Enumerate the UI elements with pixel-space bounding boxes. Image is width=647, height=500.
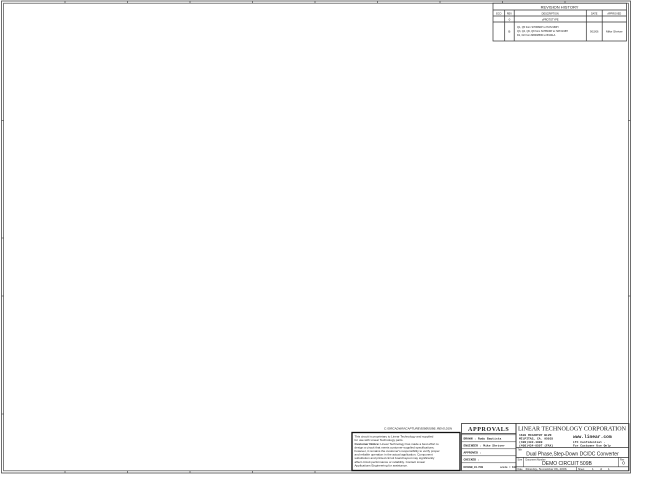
approvals block <box>462 424 518 471</box>
svg-text:(408)432-1900: (408)432-1900 <box>519 440 543 444</box>
svg-text:ENGINEER : Mike Shriver: ENGINEER : Mike Shriver <box>464 444 506 448</box>
svg-text:0: 0 <box>622 461 625 466</box>
svg-text:D1, D2 from MBRM580 to B340LA: D1, D2 from MBRM580 to B340LA <box>517 34 556 37</box>
svg-text:ECO: ECO <box>496 13 501 16</box>
svg-text:Monday, November 06, 2006: Monday, November 06, 2006 <box>525 467 566 472</box>
svg-text:Date: Date <box>518 468 524 471</box>
svg-text:www.linear.com: www.linear.com <box>573 434 612 440</box>
svg-text:DC509B_01.PCB: DC509B_01.PCB <box>464 466 484 469</box>
svg-text:DEMO CIRCUIT 509B: DEMO CIRCUIT 509B <box>542 461 592 467</box>
svg-text:C:\ORCADWIN\CAPTURE\509B\509B_: C:\ORCADWIN\CAPTURE\509B\509B_REV0.DSN <box>384 426 453 430</box>
svg-text:(408)434-0507 (FAX): (408)434-0507 (FAX) <box>519 443 553 447</box>
svg-text:9/15/06: 9/15/06 <box>590 31 599 34</box>
svg-text:APPROVALS: APPROVALS <box>468 427 509 433</box>
svg-text:scale = 100: scale = 100 <box>500 466 517 469</box>
svg-text:Title: Title <box>518 449 523 452</box>
svg-text:DATE: DATE <box>591 13 598 16</box>
svg-text:APPROVED :: APPROVED : <box>464 452 482 455</box>
svg-text:DESCRIPTION: DESCRIPTION <box>542 13 559 16</box>
svg-text:Applications Engineering for a: Applications Engineering for assistance. <box>355 463 408 467</box>
svg-text:B: B <box>508 30 510 34</box>
svg-text:REVISION HISTORY: REVISION HISTORY <box>541 4 579 9</box>
svg-text:DRAWN : Rudy Bautista: DRAWN : Rudy Bautista <box>464 437 502 441</box>
svg-text:LINEAR TECHNOLOGY CORPORATION: LINEAR TECHNOLOGY CORPORATION <box>518 426 627 433</box>
svg-text:of: of <box>600 468 602 471</box>
svg-text:Mike Shriver: Mike Shriver <box>606 30 623 34</box>
svg-text:0: 0 <box>509 18 511 22</box>
svg-text:For Customer Use Only: For Customer Use Only <box>573 444 611 448</box>
svg-text:Size: Size <box>518 458 523 461</box>
title block <box>516 424 629 473</box>
file path text <box>384 426 453 430</box>
proprietary notes box <box>352 433 460 471</box>
svg-text:Q3, Q4, Q6, Q8 from SI7866DP t: Q3, Q4, Q6, Q8 from SI7866DP to HAT2168H <box>517 30 568 33</box>
svg-text:APPROVED: APPROVED <box>607 13 621 16</box>
svg-text:CHECKED :: CHECKED : <box>464 459 480 462</box>
svg-text:Sheet: Sheet <box>578 468 585 471</box>
svg-text:LTC Confidential -: LTC Confidential - <box>573 440 606 444</box>
revision history table <box>493 3 627 41</box>
svg-text:uPROTOTYPE: uPROTOTYPE <box>542 19 559 22</box>
svg-text:REV: REV <box>507 13 512 16</box>
svg-text:Q1, Q5 from SI7866DP to HAT216: Q1, Q5 from SI7866DP to HAT2168H <box>517 26 559 29</box>
svg-text:Dual Phase,Step-Down DC/DC Con: Dual Phase,Step-Down DC/DC Converter <box>526 451 619 457</box>
